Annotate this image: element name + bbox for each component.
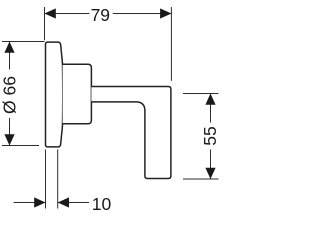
escutcheon plate (side profile) [46, 42, 63, 147]
dim 55: dimension line [210, 94, 212, 123]
dim 10: right extension line [57, 150, 59, 209]
dim 79: right extension line [170, 7, 172, 81]
dim 10: left arrow (points right) [34, 197, 45, 207]
dim 10: right tail line [58, 202, 89, 204]
dim 79: left extension line [44, 7, 46, 40]
dim 55: bottom extension line [183, 178, 219, 180]
dim O66: up arrow [4, 42, 14, 53]
dim 79: right arrow [160, 8, 171, 18]
svg-text:55: 55 [200, 126, 220, 145]
dim 10: left tail line [14, 202, 46, 204]
dim O66: dimension line [9, 42, 11, 70]
dim 10: left extension line [45, 150, 47, 209]
svg-text:Ø 66: Ø 66 [0, 76, 20, 114]
dim 10: right arrow (points left) [58, 197, 69, 207]
svg-text:79: 79 [91, 5, 110, 25]
svg-text:10: 10 [92, 194, 112, 214]
dim 79: left arrow [45, 8, 56, 18]
dim 79: dimension line [45, 13, 90, 15]
dim 55: down arrow [205, 168, 215, 179]
dim 55: top extension line [183, 93, 219, 95]
dim O66: bottom extension line [2, 145, 39, 147]
lever handle (L-shape) [91, 87, 170, 179]
sleeve / valve body [63, 64, 92, 123]
dim O66: down arrow [4, 134, 14, 145]
dim O66: top extension line [2, 41, 45, 43]
dim 55: up arrow [205, 94, 215, 105]
